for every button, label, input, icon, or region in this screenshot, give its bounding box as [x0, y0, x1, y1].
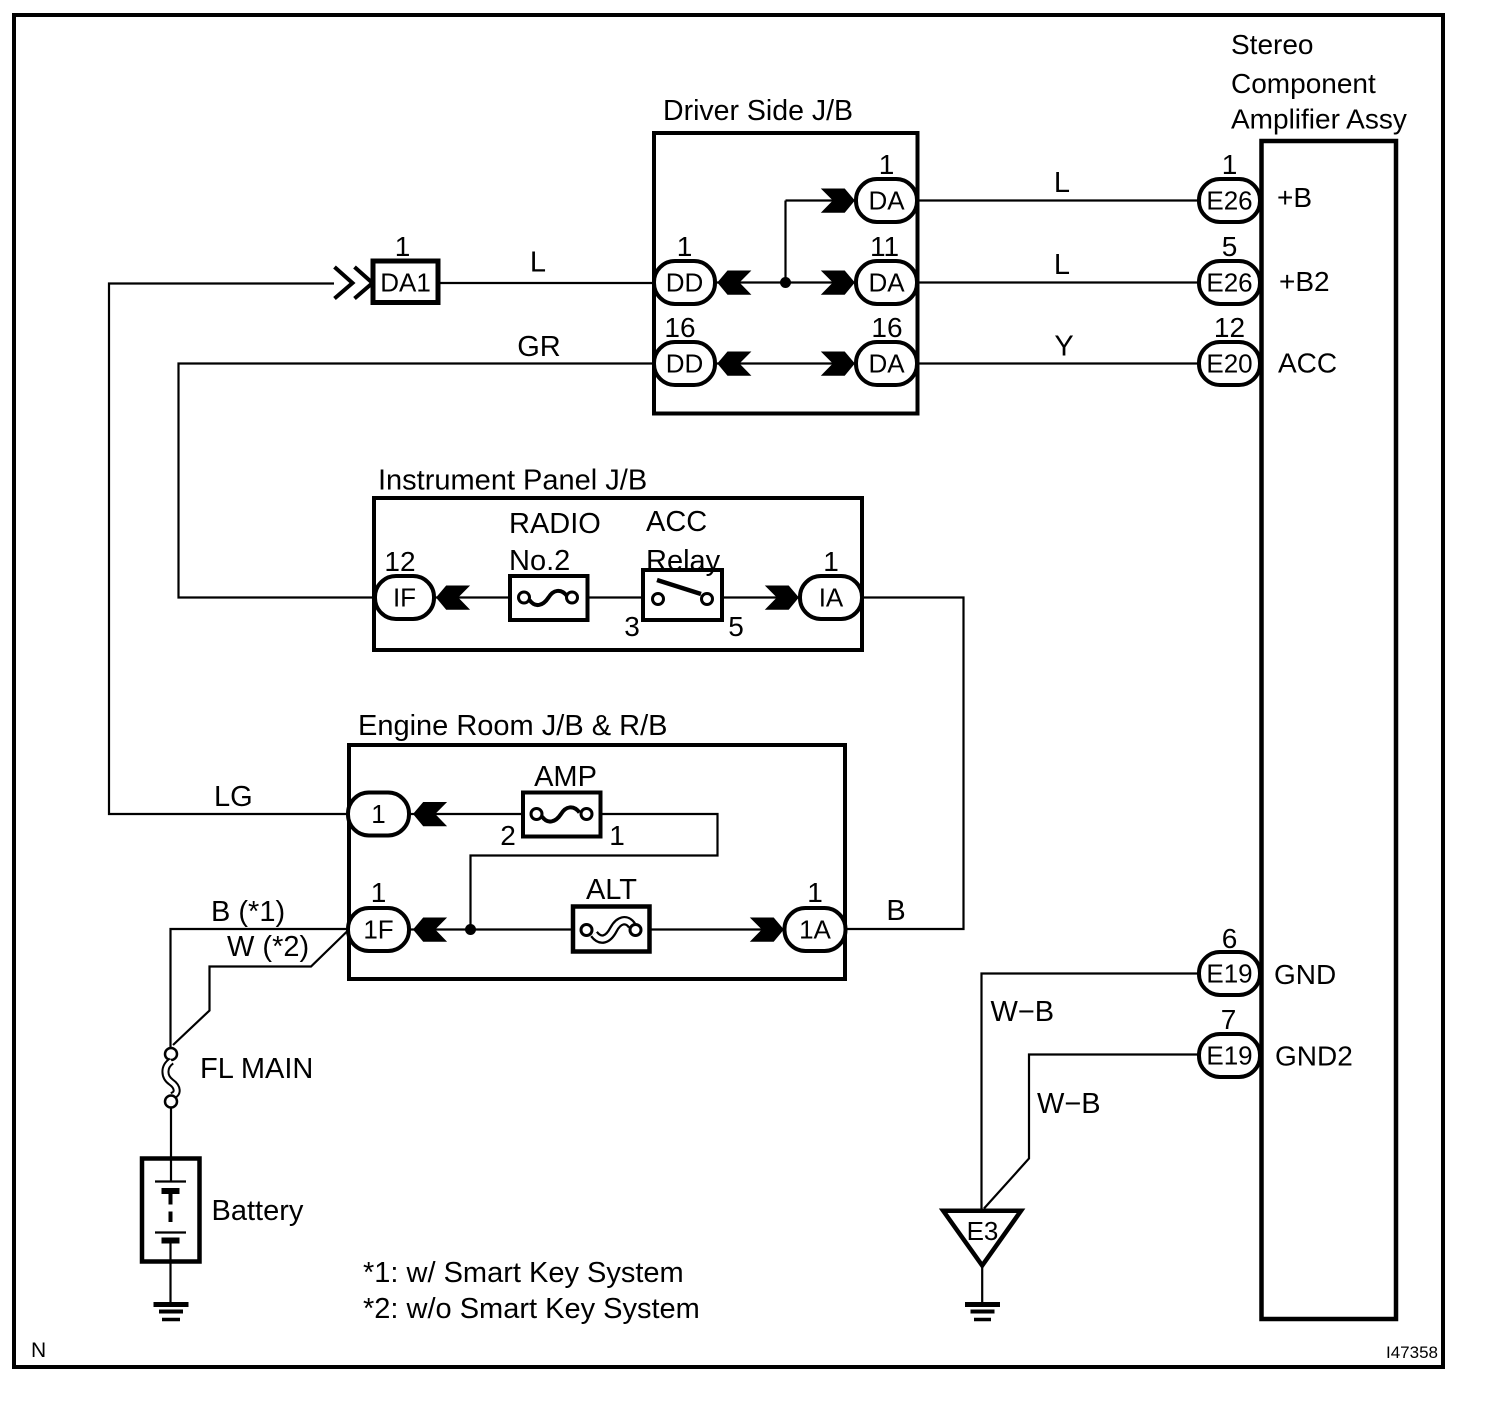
svg-text:11: 11	[870, 231, 899, 262]
svg-text:1: 1	[395, 231, 411, 262]
wire 1 to AMP fuse	[409, 813, 525, 815]
svg-text:FL MAIN: FL MAIN	[200, 1053, 313, 1085]
svg-text:W−B: W−B	[991, 996, 1055, 1028]
fuse RADIO No.2	[510, 576, 588, 620]
arrow into DA pin 11	[821, 271, 855, 295]
connector E20 pin 12	[1199, 342, 1260, 385]
wire Y to ACC	[917, 362, 1200, 364]
wire L from battery feed to DA1	[109, 284, 348, 815]
ground connector E3 triangle	[943, 1211, 1021, 1266]
svg-text:L: L	[1054, 249, 1070, 281]
battery	[142, 1159, 200, 1262]
svg-text:+B2: +B2	[1279, 266, 1330, 297]
connector DA pin 16	[856, 342, 917, 385]
svg-text:ACC: ACC	[1278, 348, 1337, 379]
connector E19 pin 6	[1199, 952, 1260, 995]
svg-text:*2: w/o Smart Key System: *2: w/o Smart Key System	[363, 1293, 700, 1325]
svg-text:Stereo: Stereo	[1231, 29, 1314, 60]
wire IA to Engine Room 1A	[846, 598, 964, 930]
svg-text:5: 5	[1222, 231, 1238, 262]
wire W-B to GND2	[984, 1055, 1200, 1209]
svg-text:E20: E20	[1206, 349, 1252, 379]
svg-text:Y: Y	[1054, 331, 1073, 363]
svg-text:Amplifier Assy: Amplifier Assy	[1231, 104, 1407, 135]
svg-text:2: 2	[500, 820, 516, 851]
wire W-B to GND	[982, 974, 1201, 1210]
svg-text:W−B: W−B	[1037, 1088, 1101, 1120]
svg-text:ACC: ACC	[646, 506, 707, 538]
fuse AMP	[523, 793, 601, 837]
relay ACC Relay	[643, 570, 722, 620]
svg-text:1: 1	[371, 877, 387, 908]
svg-text:E26: E26	[1206, 186, 1252, 216]
svg-text:AMP: AMP	[534, 761, 597, 793]
wire IF to RADIO fuse	[434, 596, 512, 598]
svg-text:DA1: DA1	[380, 268, 431, 298]
arrow into IA	[765, 586, 799, 610]
svg-text:B (*1): B (*1)	[211, 896, 285, 928]
ground symbol at E3	[965, 1305, 1000, 1320]
svg-text:16: 16	[871, 312, 902, 343]
junction dot at 1F row	[465, 924, 476, 935]
arrow out of DD pin 1	[717, 271, 751, 295]
svg-text:1F: 1F	[363, 915, 393, 945]
svg-text:6: 6	[1222, 923, 1238, 954]
svg-text:Battery: Battery	[212, 1195, 304, 1227]
fusible link ALT	[573, 907, 650, 952]
svg-text:GND2: GND2	[1275, 1041, 1353, 1072]
ground symbol at battery	[154, 1305, 189, 1320]
svg-text:Engine Room J/B & R/B: Engine Room J/B & R/B	[358, 710, 667, 742]
svg-text:5: 5	[728, 611, 744, 642]
svg-text:12: 12	[1214, 312, 1245, 343]
Driver Side J/B box	[654, 133, 918, 414]
connector DA pin 1	[856, 179, 917, 222]
svg-text:W (*2): W (*2)	[227, 931, 309, 963]
svg-text:No.2: No.2	[509, 545, 570, 577]
arrow into 1A	[750, 918, 784, 942]
connector E26 pin 5	[1199, 261, 1260, 304]
svg-text:1: 1	[609, 820, 625, 851]
arrow into DA pin 16	[821, 352, 855, 376]
svg-text:DD: DD	[666, 349, 704, 379]
svg-text:7: 7	[1221, 1004, 1237, 1035]
double chevron into DA1	[335, 267, 353, 299]
svg-text:12: 12	[384, 546, 415, 577]
svg-text:DA: DA	[868, 268, 905, 298]
Instrument Panel J/B box	[374, 498, 862, 650]
connector 1F pin 1	[348, 908, 409, 951]
svg-text:LG: LG	[214, 781, 253, 813]
svg-text:DA: DA	[868, 349, 905, 379]
wire L to +B2	[917, 281, 1200, 283]
svg-text:ALT: ALT	[586, 874, 637, 906]
wire battery to ground	[169, 1243, 171, 1302]
svg-text:I47358: I47358	[1386, 1343, 1438, 1362]
svg-text:N: N	[31, 1339, 46, 1362]
svg-text:1: 1	[371, 799, 385, 829]
svg-text:GR: GR	[517, 331, 561, 363]
svg-text:1A: 1A	[799, 915, 831, 945]
svg-text:GND: GND	[1274, 959, 1336, 990]
arrow out of IF	[436, 586, 470, 610]
svg-text:IF: IF	[393, 583, 416, 613]
svg-text:DA: DA	[868, 186, 905, 216]
wire W from battery to 1F	[173, 931, 348, 1046]
wire L to +B	[917, 199, 1200, 201]
wire E3 to ground	[981, 1266, 983, 1303]
arrow out of 1F	[413, 918, 447, 942]
svg-text:RADIO: RADIO	[509, 508, 601, 540]
wire DD1 to DA11	[715, 281, 858, 283]
svg-text:L: L	[1054, 167, 1070, 199]
junction dot	[780, 277, 791, 288]
svg-text:1: 1	[823, 546, 839, 577]
svg-text:IA: IA	[819, 583, 844, 613]
svg-text:L: L	[530, 247, 546, 279]
fusible link FL MAIN	[165, 1048, 177, 1060]
svg-text:E19: E19	[1206, 1041, 1252, 1071]
wire RADIO fuse to ACC relay	[586, 596, 645, 598]
connector E19 pin 7	[1199, 1034, 1260, 1077]
svg-text:Relay: Relay	[646, 545, 721, 577]
svg-text:3: 3	[624, 611, 640, 642]
svg-text:1: 1	[1222, 149, 1238, 180]
svg-text:DD: DD	[666, 268, 704, 298]
wire node DA1-to-DA11 vertical	[784, 201, 786, 283]
arrow out of oval 1	[413, 802, 447, 826]
svg-text:Component: Component	[1231, 68, 1376, 99]
wire AMP fuse pin 1 down to 1F row	[471, 814, 718, 930]
svg-text:Driver Side J/B: Driver Side J/B	[663, 95, 853, 127]
connector DA pin 11	[856, 261, 917, 304]
svg-text:+B: +B	[1277, 182, 1312, 213]
connector IA pin 1	[800, 576, 862, 619]
svg-text:1: 1	[807, 877, 823, 908]
svg-text:E19: E19	[1206, 959, 1252, 989]
connector E26 pin 1	[1199, 179, 1260, 222]
connector DD pin 1	[654, 261, 715, 304]
wire ACC relay to IA	[720, 596, 802, 598]
wire DD16 to DA16	[715, 362, 858, 364]
svg-text:E3: E3	[967, 1216, 999, 1246]
wire GR from DD16 to IF	[179, 364, 655, 598]
wire FL MAIN to battery	[170, 1108, 172, 1182]
connector IF pin 12	[375, 576, 434, 619]
Stereo Component Amplifier Assy box	[1262, 141, 1397, 1319]
arrow into DA pin 1	[821, 189, 855, 213]
Engine Room J/B & R/B box	[349, 745, 845, 979]
svg-text:*1: w/ Smart Key System: *1: w/ Smart Key System	[363, 1257, 684, 1289]
connector DD pin 16	[654, 342, 715, 385]
wire B from battery to 1F	[171, 929, 349, 1048]
svg-text:1: 1	[677, 231, 693, 262]
arrow out of DD pin 16	[717, 352, 751, 376]
connector DA1	[373, 261, 438, 303]
svg-text:B: B	[886, 895, 905, 927]
svg-text:1: 1	[879, 149, 895, 180]
wire DA1 to DD1	[438, 282, 654, 284]
connector 1A pin 1	[785, 908, 846, 951]
svg-text:E26: E26	[1206, 268, 1252, 298]
connector oval 1 (LG)	[348, 793, 409, 836]
wire ALT to 1A	[648, 928, 802, 930]
wire to DA pin 1	[786, 199, 859, 201]
wire 1F to ALT	[409, 928, 575, 930]
svg-text:Instrument Panel J/B: Instrument Panel J/B	[378, 465, 647, 497]
svg-text:16: 16	[664, 312, 695, 343]
